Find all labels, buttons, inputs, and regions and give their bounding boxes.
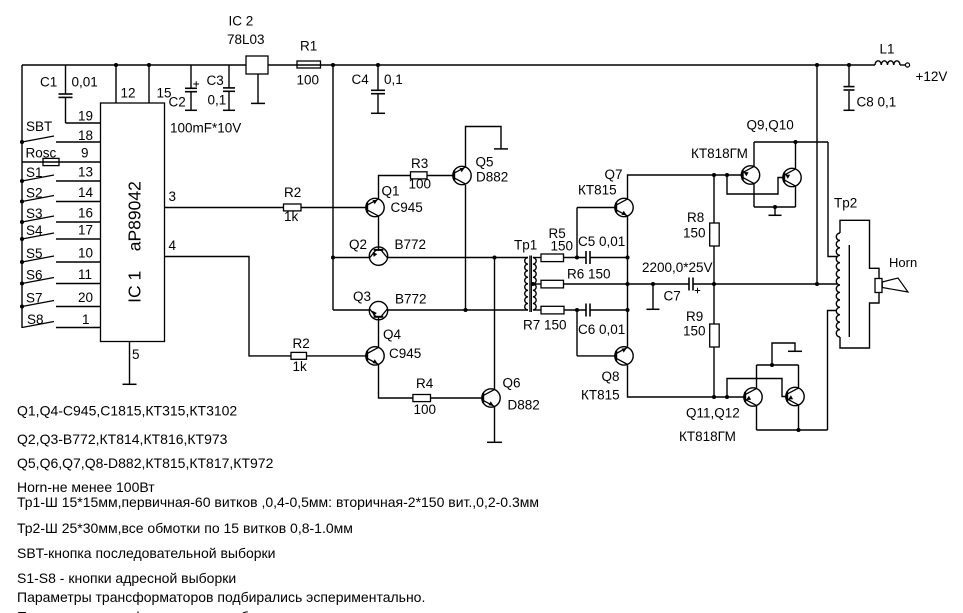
svg-text:C1: C1: [40, 75, 57, 90]
wire pin 12: [115, 65, 117, 103]
node mid-x817 junction: [815, 282, 819, 286]
capacitor C8: [844, 65, 855, 110]
transistor Q5: [453, 166, 471, 184]
wire Q10 base detour: [727, 175, 783, 194]
svg-text:Q7: Q7: [605, 167, 623, 182]
wire mid rail right: [693, 283, 837, 285]
wire Tr1 tap top: [533, 257, 541, 259]
wire Q9 bottom lead: [753, 184, 755, 207]
wire Tr2 top tap drop: [828, 142, 837, 257]
svg-text:150: 150: [683, 226, 706, 241]
node Q10 base junction: [725, 173, 729, 177]
svg-text:S7: S7: [26, 291, 43, 306]
wire left border bus: [21, 65, 23, 328]
svg-text:Horn-не менее 100Вт: Horn-не менее 100Вт: [17, 479, 155, 495]
svg-text:КТ818ГМ: КТ818ГМ: [679, 429, 736, 444]
svg-text:14: 14: [78, 185, 94, 200]
svg-text:5: 5: [132, 347, 140, 362]
switch SBT: [20, 136, 101, 144]
node A rail-R1 junction: [331, 63, 335, 67]
svg-text:R7 150: R7 150: [523, 318, 567, 333]
svg-text:L1: L1: [880, 42, 895, 57]
svg-text:Q9,Q10: Q9,Q10: [747, 118, 794, 133]
svg-text:IC 2: IC 2: [229, 14, 254, 29]
svg-text:4: 4: [169, 238, 177, 253]
svg-text:18: 18: [78, 128, 93, 143]
svg-text:Q3: Q3: [353, 289, 371, 304]
transistor Q7: [615, 198, 633, 216]
switch S7: [20, 301, 101, 309]
svg-text:Тр1-Ш 15*15мм,первичная-60 вит: Тр1-Ш 15*15мм,первичная-60 витков ,0,4-0…: [17, 494, 539, 510]
node B junction to Q2: [331, 255, 335, 259]
resistor R1: [297, 61, 321, 68]
node R5-Q7 node: [575, 255, 579, 259]
svg-text:SBT: SBT: [26, 119, 52, 134]
svg-text:+12V: +12V: [916, 69, 948, 84]
node pin12 junction: [114, 63, 118, 67]
switch S4: [20, 233, 101, 241]
ground mid rail: [647, 308, 660, 310]
wire mid rail left: [564, 283, 690, 285]
svg-text:0,01: 0,01: [72, 75, 98, 90]
svg-text:Q5,Q6,Q7,Q8-D882,КТ815,КТ817,К: Q5,Q6,Q7,Q8-D882,КТ815,КТ817,КТ972: [17, 455, 274, 471]
svg-text:R1: R1: [300, 39, 317, 54]
wire Q11Q12 ground path: [772, 343, 795, 365]
svg-text:19: 19: [78, 109, 93, 124]
svg-text:R6 150: R6 150: [567, 267, 611, 282]
svg-text:Тр2-Ш 25*30мм,все обмотки по 1: Тр2-Ш 25*30мм,все обмотки по 15 витков 0…: [17, 520, 353, 536]
svg-text:11: 11: [78, 267, 92, 282]
resistor R4: [413, 395, 431, 402]
svg-text:Q6: Q6: [503, 376, 521, 391]
ground Q5: [494, 148, 508, 150]
svg-text:17: 17: [78, 223, 93, 238]
svg-text:100: 100: [409, 177, 432, 192]
C2 plus sign: [193, 83, 199, 85]
resistor R5: [541, 254, 564, 262]
svg-text:R2: R2: [293, 336, 310, 351]
wire Q7 base riser: [576, 208, 578, 258]
wire Tr1 tap mid: [533, 283, 541, 285]
inductor L1: [875, 61, 900, 65]
transistor Q4: [366, 347, 384, 365]
transistor Q8: [615, 347, 633, 365]
wire Q1 emitter to R3: [379, 176, 411, 199]
svg-text:R3: R3: [411, 156, 428, 171]
resistor R8: [710, 223, 720, 246]
svg-text:Q11,Q12: Q11,Q12: [686, 406, 740, 421]
svg-text:S6: S6: [26, 268, 43, 283]
wire Q11Q12 top line: [757, 364, 799, 366]
svg-text:C8 0,1: C8 0,1: [857, 95, 897, 110]
transistor Q10: [783, 168, 801, 186]
resistor R7: [541, 306, 564, 314]
svg-text:Tp1: Tp1: [514, 238, 537, 253]
wire Q11Q12 bottom line: [757, 429, 828, 431]
capacitor C5: [585, 251, 587, 264]
transistor Q2: [369, 247, 387, 265]
node R7-Q8 node: [575, 308, 579, 312]
transistor Q6: [482, 389, 500, 407]
svg-text:Q2: Q2: [349, 237, 367, 252]
ground pin 5: [123, 383, 137, 385]
svg-text:1k: 1k: [284, 209, 299, 224]
wire pin19 from C1: [66, 122, 101, 124]
svg-text:КТ815: КТ815: [578, 183, 617, 198]
wire vertical from rail x333: [332, 65, 334, 310]
node Tr1 center tap: [531, 282, 535, 286]
wire Q7 collector top: [628, 175, 742, 199]
capacitor C7: [688, 278, 690, 291]
svg-text:S1: S1: [26, 165, 43, 180]
wire Tr2 bottom tap riser: [828, 311, 838, 431]
svg-text:12: 12: [121, 86, 136, 101]
node Q9Q10 ground junction: [773, 205, 777, 209]
node pin15 junction: [147, 63, 151, 67]
resistor R9: [710, 324, 720, 347]
svg-text:Q5: Q5: [476, 155, 494, 170]
svg-text:Параметры трансформаторов подб: Параметры трансформаторов подбирались эс…: [17, 609, 425, 613]
ground C4: [371, 112, 385, 114]
svg-text:Q1,Q4-C945,C1815,КТ315,КТ3102: Q1,Q4-C945,C1815,КТ315,КТ3102: [17, 403, 237, 419]
node R8 top junction: [712, 173, 716, 177]
resistor R2b: [291, 352, 307, 359]
svg-text:3: 3: [169, 189, 177, 204]
wire Q3 base to Q4 collector: [378, 317, 380, 347]
wire Q7-Q8 emitter bus: [627, 216, 629, 346]
svg-text:R8: R8: [687, 210, 704, 225]
wire Q8 collector bottom: [628, 365, 744, 397]
wire Q9 top lead: [753, 142, 755, 166]
wire x817 +12V drop: [816, 65, 818, 284]
wire Q1 collector to Q2 base: [378, 216, 380, 250]
transistor Q3: [369, 301, 387, 319]
node mid bus junction: [625, 282, 629, 286]
wire to Q2 emitter: [333, 257, 369, 259]
resistor Rosc: [22, 158, 101, 165]
wire R5 to C5: [564, 257, 587, 259]
wire pin 3: [165, 207, 284, 209]
wire Q12 bottom lead: [798, 405, 800, 430]
svg-text:C945: C945: [391, 200, 423, 215]
svg-text:S5: S5: [26, 246, 43, 261]
wire IC pin 5: [129, 342, 131, 385]
svg-text:1k: 1k: [293, 359, 308, 374]
svg-text:150: 150: [683, 324, 706, 339]
wire R2 to Q1 base: [301, 207, 366, 209]
ground Q6: [487, 441, 502, 443]
svg-text:КТ818ГМ: КТ818ГМ: [691, 146, 748, 161]
svg-text:Horn: Horn: [889, 255, 917, 270]
wire Q12 top lead: [798, 365, 800, 388]
svg-text:100: 100: [414, 402, 437, 417]
svg-text:IC 1 aP89042: IC 1 aP89042: [125, 181, 145, 303]
svg-text:S1-S8 - кнопки адресной выборк: S1-S8 - кнопки адресной выборки: [17, 570, 236, 586]
transformer Tr1 primary winding: [525, 258, 528, 310]
node mid-C7gnd junction: [651, 282, 655, 286]
wire Tr2 core: [848, 245, 850, 337]
transformer Tr1 secondary winding: [533, 258, 536, 310]
node C8 junction: [847, 63, 851, 67]
svg-text:78L03: 78L03: [227, 32, 265, 47]
wire R8 top: [713, 175, 715, 223]
svg-text:C2: C2: [169, 95, 186, 110]
svg-text:150: 150: [551, 239, 574, 254]
wire C6 to Q8 emitter: [590, 309, 628, 311]
svg-text:Q2,Q3-B772,КТ814,КТ816,КТ973: Q2,Q3-B772,КТ814,КТ816,КТ973: [17, 431, 228, 447]
wire C5 to Q7 emitter: [590, 257, 628, 259]
wire R4 to Q6 base: [431, 397, 482, 399]
svg-text:C5 0,01: C5 0,01: [578, 234, 625, 249]
capacitor C1: [59, 65, 73, 123]
terminal +12V: [905, 63, 909, 67]
svg-text:D882: D882: [508, 398, 540, 413]
wire Tr1 tap bottom: [533, 309, 541, 311]
C7 plus sign: [695, 290, 700, 292]
ground C2: [185, 109, 197, 111]
wire to Q3 emitter: [333, 309, 369, 311]
svg-text:100mF*10V: 100mF*10V: [170, 121, 241, 136]
svg-text:D882: D882: [476, 170, 508, 185]
wire Q3 collector to Tr1: [387, 309, 528, 311]
node C5 bus junction: [625, 255, 629, 259]
svg-text:Rosc: Rosc: [26, 146, 57, 161]
svg-text:20: 20: [78, 290, 93, 305]
svg-text:Параметры трансформаторов подб: Параметры трансформаторов подбирались эс…: [17, 589, 425, 605]
svg-text:КТ815: КТ815: [581, 388, 620, 403]
wire Q11 top lead: [756, 365, 758, 388]
svg-text:C6 0,01: C6 0,01: [578, 322, 625, 337]
speaker Horn cone: [882, 278, 908, 292]
wire Q8 base: [577, 355, 615, 357]
wire Q2 collector to Tr1: [387, 257, 528, 259]
svg-text:R9: R9: [686, 309, 703, 324]
svg-text:B772: B772: [395, 292, 427, 307]
node Q12 bottom junction: [796, 428, 800, 432]
wire Q5 emitter path: [466, 127, 502, 168]
speaker Horn driver: [875, 279, 882, 293]
wire Q4 emitter to R4: [379, 365, 413, 398]
wire R9 bottom: [713, 347, 715, 397]
node R8-mid junction: [712, 282, 716, 286]
wire Q6 emitter: [494, 407, 496, 442]
node Q5-Q3 junction: [463, 308, 467, 312]
svg-text:C7: C7: [664, 289, 681, 304]
resistor R6: [541, 280, 564, 288]
svg-text:13: 13: [78, 165, 93, 180]
node Q6-Q2 junction: [492, 255, 496, 259]
node R9 bottom junction: [712, 395, 716, 399]
svg-text:16: 16: [78, 206, 93, 221]
svg-text:S4: S4: [26, 223, 43, 238]
capacitor C2: [185, 65, 197, 110]
capacitor C4: [371, 65, 385, 113]
wire Q9Q10 top line: [754, 141, 828, 143]
resistor R3: [411, 172, 428, 179]
transistor Q1: [366, 198, 384, 216]
svg-text:1: 1: [82, 312, 90, 327]
svg-text:S3: S3: [26, 206, 43, 221]
svg-text:C945: C945: [389, 346, 421, 361]
wire pin 15: [148, 65, 150, 103]
resistor R2: [284, 204, 302, 211]
svg-text:C3: C3: [207, 73, 224, 88]
svg-text:10: 10: [78, 246, 93, 261]
wire Q10 bottom lead: [795, 187, 797, 207]
wire R9 top: [713, 284, 715, 324]
transformer Tr2: [836, 220, 879, 348]
switch S6: [20, 278, 101, 286]
ground C8: [844, 109, 855, 111]
svg-text:S8: S8: [27, 312, 44, 327]
ground Q11Q12: [788, 350, 802, 352]
switch S2: [20, 196, 101, 204]
svg-text:0,1: 0,1: [384, 72, 403, 87]
transistor Q12: [786, 387, 804, 405]
wire Q11 bottom lead: [756, 406, 758, 430]
node Q12 base junction: [725, 395, 729, 399]
regulator IC2 78L03: [246, 56, 268, 74]
ground IC2: [251, 102, 265, 104]
svg-text:SBT-кнопка последовательной вы: SBT-кнопка последовательной выборки: [17, 545, 275, 561]
wire Q5 collector: [465, 185, 467, 310]
wire R7 to C6: [564, 309, 586, 311]
node C4 junction: [376, 63, 380, 67]
svg-text:2200,0*25V: 2200,0*25V: [642, 260, 713, 275]
wire pin 4: [165, 257, 292, 356]
svg-text:R2: R2: [284, 185, 301, 200]
ground Q9Q10: [769, 214, 782, 216]
node Q11Q12 ground junction: [770, 363, 774, 367]
IC U1 aP89042 body: [101, 103, 165, 342]
wire R3 to Q5 base: [427, 175, 453, 177]
svg-text:0,1: 0,1: [208, 93, 227, 108]
wire Q12 base detour: [727, 379, 786, 398]
transistor Q11: [744, 388, 762, 406]
wire Q9Q10 bottom line: [754, 206, 796, 208]
svg-text:Q8: Q8: [602, 369, 620, 384]
wire IC2 ground pin: [257, 74, 259, 103]
capacitor C6: [585, 304, 587, 317]
ground C3: [223, 109, 235, 111]
transistor Q9: [741, 166, 759, 184]
wire Tr1 core: [529, 256, 531, 313]
svg-text:Tp2: Tp2: [834, 196, 857, 211]
capacitor C3: [223, 65, 235, 110]
switch S1: [20, 175, 101, 183]
svg-text:9: 9: [81, 146, 89, 161]
wire R2b to Q4 base: [307, 355, 366, 357]
wire C7 ground stub: [652, 284, 654, 309]
node C6 bus junction: [625, 308, 629, 312]
wire Q7 base: [577, 207, 615, 209]
wire R8 bottom: [713, 246, 715, 284]
svg-text:R4: R4: [416, 376, 434, 391]
svg-text:100: 100: [297, 73, 320, 88]
node rail x817 junction: [815, 63, 819, 67]
wire Q8 base riser: [576, 310, 578, 356]
svg-text:Q4: Q4: [383, 327, 402, 342]
svg-text:C4: C4: [352, 72, 370, 87]
wire L1 to terminal: [900, 64, 906, 66]
switch S3: [20, 216, 101, 224]
svg-text:B772: B772: [395, 237, 427, 252]
node Q10 top junction: [793, 140, 797, 144]
wire top +12V rail: [22, 64, 875, 66]
switch S8: [22, 322, 101, 328]
switch S5: [20, 256, 101, 264]
wire Q9Q10 ground stub: [774, 207, 776, 215]
wire Q10 top lead: [795, 142, 797, 169]
svg-text:S2: S2: [26, 186, 43, 201]
wire Q6 collector: [494, 258, 496, 390]
svg-text:Q1: Q1: [382, 184, 400, 199]
